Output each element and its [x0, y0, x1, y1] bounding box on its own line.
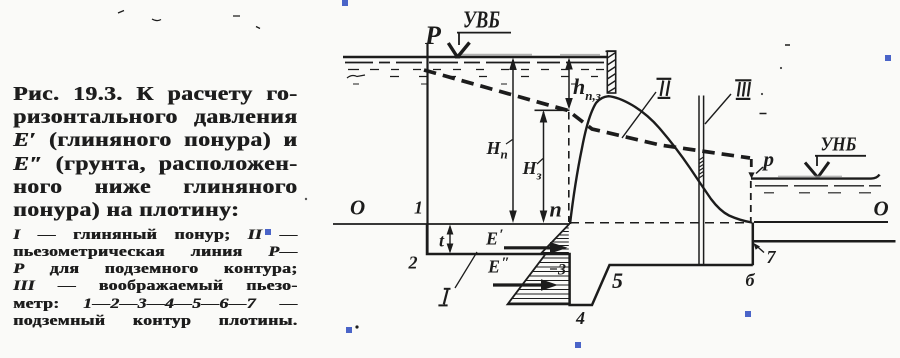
- svg-text:Нп: Нп: [486, 138, 508, 162]
- wire: ground line O-O left solid: [333, 223, 570, 225]
- svg-text:УВБ: УВБ: [463, 8, 500, 34]
- ink speck near caption: [305, 198, 307, 200]
- arrow E'' (horizontal force arrow): [487, 255, 558, 291]
- svg-text:4: 4: [575, 308, 585, 328]
- svg-text:О: О: [350, 196, 365, 220]
- ink specks right area: [760, 45, 791, 114]
- imaginary piezometer tube III: [699, 96, 704, 265]
- svg-text:5: 5: [612, 268, 623, 293]
- wire: vertical line P down to point 2: [426, 44, 428, 254]
- ink speck bottom left: [355, 325, 358, 328]
- dimension Hп arrow: [486, 58, 517, 224]
- svg-text:′: ′: [500, 227, 504, 243]
- pressure diagram E' (hatched): [543, 228, 569, 253]
- gray smudge on downstream water line: [778, 176, 842, 178]
- dam profile curve: [570, 96, 752, 224]
- svg-text:Е: Е: [487, 257, 500, 277]
- piezometric line II (thick dashed): [424, 70, 750, 158]
- pressure diagram E'' (hatched): [509, 258, 569, 303]
- figure caption: [13, 83, 297, 330]
- upstream water surface dashes row 3: [347, 75, 598, 78]
- svg-text:Е: Е: [485, 229, 498, 249]
- dimension t arrow: [439, 225, 453, 254]
- label III with leader: [705, 80, 751, 124]
- downstream water dashes row 2: [764, 192, 871, 194]
- svg-text:р: р: [762, 147, 775, 171]
- node 3: [550, 262, 566, 279]
- dimension hп,з arrow: [565, 58, 601, 110]
- svg-text:п: п: [550, 197, 562, 222]
- gray smudge on upstream water line: [456, 54, 600, 56]
- svg-text:hп,з: hп,з: [573, 74, 601, 103]
- svg-text:УНБ: УНБ: [821, 134, 857, 156]
- piezometric line II vertical end drop: [750, 159, 753, 171]
- downstream water line УНБ: [751, 175, 880, 179]
- upstream water line УВБ: [343, 56, 607, 59]
- wire: dashed vertical extension at dam face: [568, 112, 570, 222]
- arrow E' (horizontal force arrow): [485, 227, 568, 254]
- upstream water surface dashes row 2: [348, 69, 604, 71]
- dimension H3 arrow: [522, 110, 548, 223]
- svg-text:3: 3: [557, 262, 566, 279]
- wire: ground line O-O right solid: [754, 221, 888, 223]
- svg-text:2: 2: [408, 253, 418, 273]
- tick: piezometric level at dam face: [535, 109, 570, 111]
- upstream water surface dashes row 1: [345, 62, 604, 64]
- ink specks top: [118, 11, 260, 29]
- label УВБ: [448, 8, 511, 58]
- svg-text:О: О: [874, 197, 889, 221]
- label I (clay apron) with leader: [438, 252, 477, 305]
- svg-text:t: t: [439, 231, 445, 251]
- blue scan dots: [265, 0, 891, 348]
- wire: dashed vertical below downstream P: [750, 181, 752, 221]
- node 7 with leader: [753, 243, 776, 267]
- label II with leader: [622, 79, 671, 138]
- svg-text:б: б: [746, 270, 756, 290]
- upstream water surface dashes row 4: [353, 83, 577, 85]
- svg-text:Нз: Нз: [522, 158, 542, 183]
- gate on dam crest: [606, 51, 617, 93]
- svg-text:7: 7: [767, 247, 777, 267]
- downstream water dashes row 1: [755, 185, 881, 187]
- label УНБ: [805, 134, 866, 178]
- underground contour 1-2-3-4-5-6-7 of the dam: [427, 223, 896, 306]
- svg-text:″: ″: [502, 255, 510, 271]
- svg-text:1: 1: [414, 198, 423, 218]
- label p (downstream piezometric point) with arrow: [756, 147, 774, 174]
- wire: ground line O-O dashed under dam: [570, 222, 748, 224]
